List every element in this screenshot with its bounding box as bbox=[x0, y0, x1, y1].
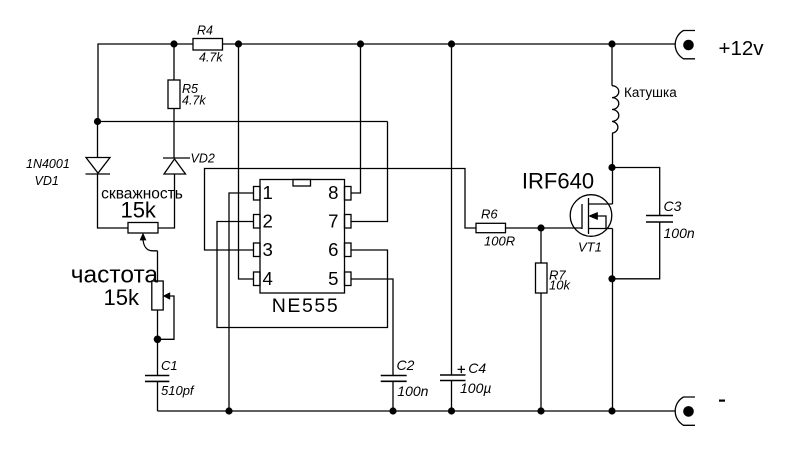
minus sign bbox=[719, 400, 725, 402]
svg-text:R4: R4 bbox=[197, 24, 213, 38]
svg-text:510pf: 510pf bbox=[161, 383, 195, 398]
capacitor C3 bbox=[612, 168, 660, 216]
pin 5 stub bbox=[345, 272, 352, 286]
wire pin7 link bbox=[352, 122, 388, 222]
svg-text:100n: 100n bbox=[664, 225, 695, 241]
svg-text:1: 1 bbox=[263, 182, 273, 203]
svg-text:3: 3 bbox=[263, 239, 273, 260]
terminal minus connector bbox=[675, 397, 695, 425]
svg-text:100n: 100n bbox=[397, 383, 428, 399]
IC U1 NE555 body bbox=[260, 180, 345, 294]
wire chastota pot bottom lead bbox=[157, 310, 159, 376]
node dot source / C3 bottom bbox=[608, 275, 615, 282]
drain connection bbox=[589, 203, 613, 205]
capacitor C1 bbox=[145, 376, 169, 382]
svg-text:VD2: VD2 bbox=[191, 151, 215, 165]
wire ground rail bbox=[158, 410, 676, 412]
potentiometer "частота 15k" bbox=[152, 281, 163, 310]
diode VD1 (cathode down) bbox=[97, 122, 99, 158]
pin 7 stub bbox=[345, 215, 352, 229]
svg-text:2: 2 bbox=[263, 211, 273, 232]
wire source down to ground bbox=[612, 229, 614, 412]
wire pin4 to +12v rail bbox=[239, 44, 254, 279]
channel bar bbox=[588, 198, 590, 234]
svg-text:4.7k: 4.7k bbox=[199, 51, 223, 65]
wire drain up to coil bbox=[612, 133, 614, 204]
source connection bbox=[589, 228, 613, 230]
terminal +12v connector bbox=[675, 31, 695, 59]
wire pin3 output to R6 bbox=[205, 169, 477, 251]
terminal +12v center dot bbox=[683, 40, 694, 51]
svg-text:IRF640: IRF640 bbox=[522, 168, 594, 193]
svg-text:+12v: +12v bbox=[719, 37, 765, 60]
pin 3 stub bbox=[254, 243, 261, 257]
svg-text:1N4001: 1N4001 bbox=[26, 157, 70, 171]
node dot R4 left / R5 top bbox=[170, 40, 177, 47]
svg-text:C4: C4 bbox=[468, 360, 486, 376]
svg-text:100µ: 100µ bbox=[460, 380, 491, 396]
node dot gate / R6-R7 bbox=[537, 224, 544, 231]
pin 6 stub bbox=[345, 243, 352, 257]
resistor R5 bbox=[173, 44, 175, 80]
node dot drain / C3 top bbox=[608, 164, 615, 171]
svg-text:C2: C2 bbox=[397, 357, 415, 373]
capacitor C2 bbox=[381, 376, 407, 382]
diode VD2 (cathode up) bbox=[163, 157, 190, 159]
transistor Q1 IRF640 body circle bbox=[570, 195, 612, 237]
gate electrode bbox=[581, 204, 583, 229]
node dot ground R7 bbox=[537, 407, 544, 414]
svg-text:7: 7 bbox=[328, 211, 338, 232]
node dot coil rail bbox=[608, 40, 615, 47]
wire top rail left segment bbox=[98, 44, 193, 122]
svg-text:100R: 100R bbox=[484, 233, 515, 248]
resistor R4 bbox=[193, 39, 223, 51]
svg-text:10k: 10k bbox=[549, 277, 571, 292]
node dot chastota wiper junction bbox=[154, 336, 162, 344]
inductor L1 (Катушка) bbox=[611, 44, 613, 86]
svg-text:4: 4 bbox=[263, 268, 273, 289]
notch bbox=[293, 180, 311, 187]
svg-text:C1: C1 bbox=[161, 358, 178, 373]
capacitor C4 (electrolytic) bbox=[451, 44, 453, 375]
svg-text:NE555: NE555 bbox=[272, 295, 340, 317]
wiper arrow of chastota pot bbox=[164, 293, 169, 298]
svg-text:15k: 15k bbox=[120, 198, 156, 223]
node dot ground pin1 bbox=[225, 407, 232, 414]
wire pin1 to ground bbox=[229, 193, 254, 411]
svg-text:15k: 15k bbox=[104, 285, 140, 310]
wire pin2 to pin6 tie bbox=[217, 222, 388, 328]
svg-text:Катушка: Катушка bbox=[624, 85, 677, 100]
wire pin5 to C2 bbox=[352, 279, 394, 376]
node dot C4 rail bbox=[448, 40, 455, 47]
svg-text:R6: R6 bbox=[481, 206, 498, 221]
pin 2 stub bbox=[254, 215, 261, 229]
pin 1 stub bbox=[254, 187, 261, 201]
node dot ground C2 bbox=[389, 407, 396, 414]
node dot ground source bbox=[608, 407, 615, 414]
svg-text:4.7k: 4.7k bbox=[182, 94, 206, 108]
svg-text:8: 8 bbox=[328, 182, 338, 203]
node dot pin8 rail bbox=[357, 40, 364, 47]
node dot left rail junction bbox=[94, 118, 101, 125]
wire wiper to chastota pot bbox=[157, 251, 159, 281]
pin 8 stub bbox=[345, 187, 352, 201]
terminal minus center dot bbox=[683, 406, 694, 417]
node dot ground C4 bbox=[448, 407, 455, 414]
svg-text:VT1: VT1 bbox=[578, 239, 602, 254]
plus sign of C4 bbox=[458, 366, 465, 373]
wire R6 to gate bbox=[506, 227, 583, 229]
pin 4 stub bbox=[254, 272, 261, 286]
svg-text:5: 5 bbox=[328, 268, 338, 289]
resistor R6 bbox=[476, 223, 506, 232]
potentiometer "скважность 15k" bbox=[128, 223, 158, 234]
svg-text:VD1: VD1 bbox=[35, 174, 59, 188]
wire pin8 to +12v rail bbox=[352, 44, 361, 193]
node dot R4 right / pin4 rail bbox=[235, 40, 242, 47]
svg-text:6: 6 bbox=[328, 239, 338, 260]
body arrow bbox=[597, 216, 606, 229]
wire top rail right segment (+12v rail) bbox=[223, 43, 676, 45]
svg-text:C3: C3 bbox=[664, 198, 682, 214]
wiper arrow of skvazhnost pot bbox=[143, 240, 158, 251]
wire second rail (pin7 net) bbox=[98, 121, 388, 123]
resistor R7 bbox=[540, 228, 542, 263]
